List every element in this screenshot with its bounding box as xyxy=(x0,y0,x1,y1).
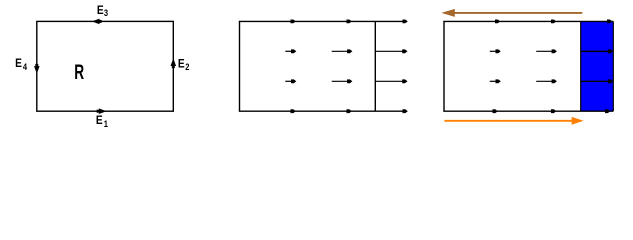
svg-text:4: 4 xyxy=(23,62,27,72)
wire: top edge xyxy=(239,20,404,22)
wire: bottom edge xyxy=(239,110,404,112)
interior edge arrow row2-a xyxy=(490,79,501,83)
svg-text:E: E xyxy=(97,3,104,17)
orientation marker on bottom edge (first) xyxy=(493,109,498,113)
orientation marker on top edge (second) xyxy=(347,20,352,24)
highlighted column (blue) xyxy=(581,21,613,111)
orientation marker on top edge (first) xyxy=(291,20,296,24)
wire: right edge xyxy=(612,21,614,111)
wire: interior vertical divider xyxy=(374,21,376,111)
orientation marker on bottom edge (second) xyxy=(551,109,556,113)
interior edge arrow row2-b xyxy=(332,79,353,83)
rectangle R (left figure) xyxy=(37,21,174,111)
edge E4 arrow (left side, pointing down) xyxy=(34,64,40,74)
wire: bottom edge xyxy=(443,110,613,112)
orientation marker on top edge (second) xyxy=(551,20,556,24)
wire: top edge xyxy=(443,20,613,22)
arrowhead at right end of top edge xyxy=(403,20,408,24)
interior edge arrow row1-c (crossing highlighted column) xyxy=(581,49,614,53)
top traversal arrow (brown, pointing left) xyxy=(441,9,582,17)
svg-text:3: 3 xyxy=(104,8,108,18)
orientation marker on bottom edge (first) xyxy=(291,109,296,113)
svg-text:E: E xyxy=(178,56,185,70)
interior edge arrow row1-b xyxy=(536,49,557,53)
orientation marker on bottom edge (second) xyxy=(347,109,352,113)
interior edge arrow row1-a xyxy=(285,49,296,53)
interior edge arrow row2-c (crossing highlighted column) xyxy=(581,79,614,83)
bottom traversal arrow (orange, pointing right) xyxy=(444,117,583,125)
wire: left edge xyxy=(443,21,445,111)
svg-text:R: R xyxy=(74,61,84,84)
interior edge arrow row1-c (from divider) xyxy=(375,49,407,53)
interior edge arrow row2-a xyxy=(285,79,296,83)
svg-text:E: E xyxy=(96,113,103,127)
edge E1 arrow (bottom, pointing right) xyxy=(97,108,107,114)
svg-text:2: 2 xyxy=(185,62,189,72)
orientation marker on top edge (first) xyxy=(495,20,500,24)
wire: left edge xyxy=(239,21,241,111)
svg-text:1: 1 xyxy=(104,119,108,129)
edge E3 arrow (top, pointing left) xyxy=(92,19,102,25)
interior edge arrow row2-b xyxy=(536,79,557,83)
wire: divider at left side of highlighted column xyxy=(580,21,582,111)
svg-text:E: E xyxy=(15,56,22,70)
interior edge arrow row1-b xyxy=(332,49,353,53)
arrowhead at right end of bottom edge xyxy=(403,109,408,113)
orientation marker on top edge (third, over highlighted column) xyxy=(607,20,612,24)
interior edge arrow row1-a xyxy=(490,49,501,53)
interior edge arrow row2-c (from divider) xyxy=(375,79,407,83)
edge E2 arrow (right side, pointing up) xyxy=(171,58,177,68)
orientation marker on bottom edge (third, over highlighted column) xyxy=(605,109,610,113)
